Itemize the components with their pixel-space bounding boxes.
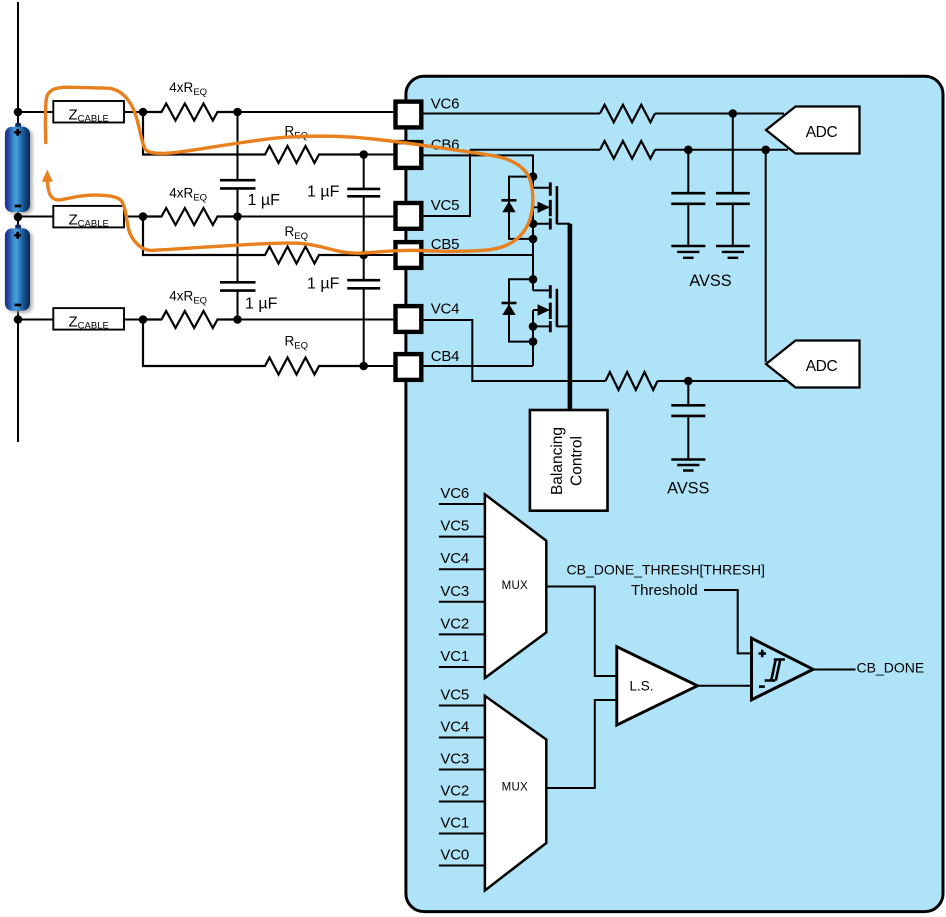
capacitor C5 (VC5 filter) <box>671 150 705 246</box>
resistor 4xREQ R1 <box>143 104 238 121</box>
resistor 4xREQ R5 <box>143 311 238 328</box>
svg-text:VC6: VC6 <box>440 485 469 502</box>
amp L.S. level shifter <box>617 647 698 725</box>
node dots internal <box>529 109 770 385</box>
battery cell B2 <box>5 225 30 311</box>
wire VC5 line to ADC1 <box>655 149 788 151</box>
node VC2 mux1 input <box>439 615 485 634</box>
pin VC5 <box>396 197 460 229</box>
wire CB5 to Q2 <box>532 255 534 290</box>
node VC1 mux1 input <box>439 648 485 667</box>
label REQ R6 <box>285 334 308 352</box>
resistor REQ R6 (CB4 branch) <box>143 320 364 375</box>
wire VC5 tap to ADC2 <box>765 150 767 362</box>
node VC3 mux2 input <box>439 751 485 770</box>
pin CB5 <box>396 236 460 268</box>
svg-text:MUX: MUX <box>502 782 528 794</box>
transistor Q1 <box>533 182 570 239</box>
label C4 1uF <box>307 276 340 293</box>
svg-text:VC2: VC2 <box>440 783 469 800</box>
wire LS output to comparator <box>698 685 752 687</box>
resistor R8 (VC5 to ADC) <box>600 141 655 159</box>
resistor R7 (VC6 to ADC) <box>600 105 655 123</box>
svg-text:VC2: VC2 <box>440 615 469 632</box>
diode D2 <box>502 279 534 341</box>
wire Threshold to comparator <box>704 590 752 653</box>
battery cell B1 <box>5 123 30 212</box>
svg-text:VC0: VC0 <box>440 847 469 864</box>
comparator U2 <box>752 638 814 700</box>
label AVSS lower <box>667 480 709 498</box>
svg-text:VC4: VC4 <box>431 301 460 318</box>
wire row3 battery mid to Z2 <box>18 216 53 218</box>
svg-text:ADC: ADC <box>806 124 838 141</box>
wire row4 to pin CB5 <box>364 254 394 256</box>
wire balancing gate bus <box>568 224 573 410</box>
wire mux1 output to LS <box>546 587 617 677</box>
capacitor C2 (VC5-VC4 1uF) <box>220 217 256 320</box>
svg-text:VC5: VC5 <box>440 687 469 704</box>
node dots external <box>14 108 368 371</box>
node VC0 mux2 input <box>439 847 485 866</box>
capacitor C4 (CB5-CB4 1uF) <box>347 255 380 366</box>
svg-text:CB4: CB4 <box>431 348 460 365</box>
label 4xREQ R3 <box>169 186 207 204</box>
label CB_DONE_THRESH <box>567 562 765 578</box>
wire Q2 source to CB4 line <box>532 342 534 366</box>
wire VC6 line to ADC1 <box>655 113 784 115</box>
svg-text:AVSS: AVSS <box>689 272 731 290</box>
resistor REQ R2 (CB6 branch) <box>143 112 364 163</box>
resistor R9 (VC4 to ADC) <box>606 372 658 390</box>
ground AVSS G1 <box>671 246 705 258</box>
svg-text:AVSS: AVSS <box>667 480 709 498</box>
svg-text:Threshold: Threshold <box>631 582 698 599</box>
node VC4 mux1 input <box>439 550 485 569</box>
svg-text:4xREQ: 4xREQ <box>169 289 207 307</box>
mux MUX1 <box>485 494 546 678</box>
svg-text:1 µF: 1 µF <box>307 183 340 200</box>
svg-text:REQ: REQ <box>285 124 308 142</box>
wire Q1 source to CB5 line <box>532 239 534 255</box>
pin VC6 <box>396 96 460 128</box>
wire left battery stack bus <box>17 2 19 442</box>
block Balancing Control <box>530 410 608 511</box>
block ADC2 <box>766 341 860 388</box>
svg-text:4xREQ: 4xREQ <box>169 186 207 204</box>
label AVSS upper <box>689 272 731 290</box>
wire orange balancing current path <box>42 87 533 253</box>
pin CB6 <box>396 136 460 168</box>
label Threshold <box>631 582 698 599</box>
impedance Z3 ZCABLE <box>53 308 124 332</box>
svg-text:4xREQ: 4xREQ <box>169 80 207 98</box>
impedance Z2 ZCABLE <box>53 206 124 230</box>
svg-text:CB_DONE: CB_DONE <box>857 660 925 676</box>
svg-text:REQ: REQ <box>285 334 308 352</box>
svg-text:VC5: VC5 <box>440 518 469 535</box>
svg-text:1 µF: 1 µF <box>307 276 340 293</box>
wire VC5 internal riser <box>423 150 470 216</box>
ground AVSS G2 <box>716 246 750 258</box>
label C3 1uF <box>307 183 340 200</box>
svg-text:VC4: VC4 <box>440 550 469 567</box>
resistor 4xREQ R3 <box>143 208 238 225</box>
svg-text:VC5: VC5 <box>431 197 460 214</box>
label CB_DONE <box>857 660 925 676</box>
wire row3 Z2 to R3 node <box>124 216 143 218</box>
wire CB5 internal <box>423 254 533 256</box>
mux MUX2 <box>485 696 546 891</box>
svg-text:VC6: VC6 <box>431 96 460 113</box>
node VC1 mux2 input <box>439 815 485 834</box>
svg-text:1 µF: 1 µF <box>245 296 278 313</box>
capacitor C6 (VC6 filter) <box>716 114 750 247</box>
wire CB6 internal <box>423 155 533 187</box>
wire row6 to pin CB4 <box>364 365 394 367</box>
node VC4 mux2 input <box>439 719 485 738</box>
svg-text:VC3: VC3 <box>440 751 469 768</box>
wire row1 to pin VC6 <box>238 111 394 113</box>
transistor Q2 <box>533 285 570 342</box>
svg-text:CB_DONE_THRESH[THRESH]: CB_DONE_THRESH[THRESH] <box>567 562 765 578</box>
label C1 1uF <box>248 192 281 209</box>
svg-text:Balancing: Balancing <box>549 427 566 495</box>
label 4xREQ R1 <box>169 80 207 98</box>
wire row3 to pin VC5 <box>238 216 394 218</box>
wire row1 battery top to Z1 <box>18 111 53 113</box>
wire row5 battery bottom to Z3 <box>18 319 53 321</box>
label C2 1uF <box>245 296 278 313</box>
wire CB4 internal <box>423 365 533 367</box>
node VC2 mux2 input <box>439 783 485 802</box>
impedance Z1 ZCABLE <box>53 101 124 125</box>
svg-text:REQ: REQ <box>285 224 308 242</box>
svg-text:1 µF: 1 µF <box>248 192 281 209</box>
resistor REQ R4 (CB5 branch) <box>143 217 364 264</box>
label 4xREQ R5 <box>169 289 207 307</box>
ground AVSS G3 <box>671 460 705 471</box>
node VC3 mux1 input <box>439 583 485 602</box>
svg-text:VC1: VC1 <box>440 815 469 832</box>
wire comparator output <box>813 669 855 671</box>
wire VC4 line to ADC2 <box>658 380 788 382</box>
svg-text:Control: Control <box>569 436 586 486</box>
wire row5 to pin VC4 <box>238 319 394 321</box>
svg-text:L.S.: L.S. <box>629 678 653 693</box>
node VC6 mux1 input <box>439 485 485 504</box>
svg-text:VC3: VC3 <box>440 583 469 600</box>
wire VC4 internal <box>423 320 605 381</box>
wire row1 Z1 to R1 node <box>124 111 143 113</box>
wire VC5 line L1 <box>470 149 600 151</box>
wire row5 Z3 to R5 node <box>124 319 143 321</box>
svg-text:VC4: VC4 <box>440 719 469 736</box>
wire row2 to pin CB6 <box>364 154 394 156</box>
capacitor C7 (VC4 filter) <box>671 381 705 460</box>
IC body U1 <box>406 76 943 911</box>
wire mux2 output to LS <box>546 700 617 788</box>
diode D1 <box>502 177 534 239</box>
svg-text:ADC: ADC <box>806 358 838 375</box>
pin VC4 <box>396 301 460 332</box>
label REQ R2 <box>285 124 308 142</box>
block ADC1 <box>766 107 860 154</box>
capacitor C1 (VC6-VC5 1uF) <box>220 112 256 217</box>
label REQ R4 <box>285 224 308 242</box>
capacitor C3 (CB6-CB5 1uF) <box>347 155 380 256</box>
wire VC6 internal to ADC resistor <box>423 113 600 115</box>
pin CB4 <box>396 348 460 380</box>
node VC5 mux2 input <box>439 687 485 706</box>
svg-text:MUX: MUX <box>502 580 528 592</box>
svg-text:VC1: VC1 <box>440 648 469 665</box>
node VC5 mux1 input <box>439 518 485 537</box>
